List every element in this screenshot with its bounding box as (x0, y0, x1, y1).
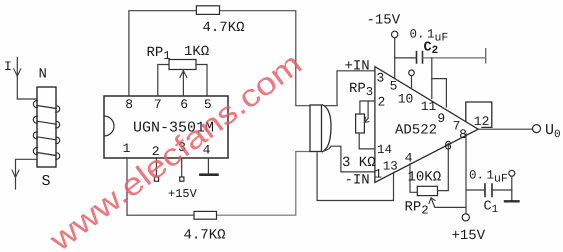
wire -15V node to C2 (395, 57, 416, 59)
svg-text:3: 3 (377, 71, 385, 86)
wire pin11 from C2 line (431, 58, 433, 99)
svg-text:0. 1uF: 0. 1uF (469, 169, 508, 186)
wire pin4 to RP2 (410, 164, 417, 193)
coil winding turn 2 (33, 116, 59, 128)
IC U1 UGN-3501M body (104, 96, 228, 158)
potentiometer RP3 body (356, 114, 365, 133)
svg-text:1: 1 (123, 141, 131, 156)
op-amp U2 AD522 triangle (375, 67, 478, 183)
resistor R1 4.7K top (196, 6, 219, 15)
coil winding turn 3 (33, 132, 59, 144)
bottom rail wire (127, 214, 194, 216)
RP1 wiper arrowhead (180, 71, 187, 78)
svg-text:14: 14 (377, 143, 392, 157)
wire coupler to +IN (325, 71, 375, 106)
ground bar C1 (505, 200, 519, 202)
svg-text:3 KΩ: 3 KΩ (342, 155, 376, 171)
svg-text:-15V: -15V (367, 13, 401, 29)
svg-text:RP2: RP2 (405, 200, 429, 218)
coil winding turn 1 (33, 101, 59, 113)
svg-text:13: 13 (383, 160, 398, 174)
wire +15V node to C1 (466, 189, 485, 191)
wire into coil (17, 98, 56, 100)
svg-text:11: 11 (421, 99, 437, 114)
pin3 wire (181, 158, 183, 177)
svg-text:9: 9 (437, 111, 445, 126)
svg-text:6: 6 (180, 97, 188, 112)
U1 notch (104, 116, 114, 136)
pin1 wire to bottom rail (126, 158, 128, 215)
svg-text:+15V: +15V (452, 228, 486, 244)
coil exit wire (16, 159, 37, 189)
current arrow down (16, 58, 18, 99)
svg-text:AD522: AD522 (395, 123, 437, 139)
cable coupler arc (323, 105, 332, 152)
svg-text:I: I (4, 59, 12, 74)
RP3 top lead to pin2 (360, 101, 375, 114)
RP1 right lead to pin5 (196, 65, 207, 97)
svg-text:10KΩ: 10KΩ (408, 170, 442, 186)
svg-text:www.elecfans.com: www.elecfans.com (42, 46, 308, 252)
wire -15V to pin5 (394, 38, 396, 79)
box pin12 (466, 102, 492, 127)
wire pin8 to +15V (465, 134, 467, 214)
wire terminal to ground (511, 176, 513, 201)
output wire (478, 128, 532, 130)
svg-text:+15V: +15V (168, 187, 198, 201)
svg-text:-IN: -IN (345, 173, 370, 189)
RP3 wiper arrowhead (364, 117, 369, 122)
resistor R2 4.7K bottom (194, 211, 217, 219)
wire coupler arc to pin1 (324, 146, 375, 172)
exit arrowhead (12, 170, 19, 178)
RP3 wiper loop (364, 101, 368, 122)
pin3 terminal square (180, 177, 184, 181)
wire C1 to ground (493, 189, 512, 191)
terminal +15V (462, 214, 469, 221)
svg-text:+IN: +IN (345, 59, 370, 75)
capacitor C2 (417, 52, 423, 64)
svg-text:5: 5 (390, 79, 398, 94)
svg-text:RP3: RP3 (349, 81, 373, 99)
capacitor C1 (485, 184, 492, 197)
wire C2 right (423, 57, 486, 59)
pin2 wire (155, 158, 157, 177)
potentiometer RP2 body (417, 186, 437, 195)
pin4 wire (207, 158, 209, 174)
RP1 wiper wire pin6 (182, 71, 184, 96)
wire pin10 (411, 76, 413, 89)
svg-text:8: 8 (125, 97, 133, 112)
svg-text:RP1: RP1 (147, 45, 171, 63)
terminal circle right (509, 170, 515, 176)
terminal U0 (533, 125, 541, 133)
RP3 bottom lead to pin14 (359, 133, 375, 149)
svg-text:4: 4 (405, 151, 413, 166)
terminal -15V (392, 31, 398, 37)
ground bar at pin4 (200, 173, 217, 176)
RP1 left lead to pin7 (158, 65, 169, 97)
wire coupler bottom to pin13 (317, 152, 393, 201)
cable coupler body (310, 105, 322, 152)
svg-text:S: S (42, 173, 51, 190)
svg-text:10: 10 (398, 92, 414, 107)
svg-text:U0: U0 (545, 122, 561, 141)
RP2 wiper arrowhead (429, 198, 435, 204)
coil winding turn 4 (33, 148, 59, 160)
terminal pin10 (409, 70, 415, 76)
top rail wire (129, 11, 196, 96)
jumper pin11 to pin9 (432, 79, 447, 107)
svg-text:4.7KΩ: 4.7KΩ (203, 20, 245, 36)
wire end tick (485, 49, 487, 63)
RP2 right lead to pin6 (438, 143, 449, 190)
svg-text:4.7KΩ: 4.7KΩ (184, 228, 226, 244)
RP2 wiper wire to +15V (431, 198, 466, 207)
svg-text:N: N (39, 67, 47, 83)
potentiometer RP1 (169, 60, 196, 70)
svg-text:1KΩ: 1KΩ (184, 44, 209, 60)
svg-text:C1: C1 (484, 200, 499, 217)
pin2 terminal square (154, 177, 158, 181)
coil core L1 (37, 87, 56, 167)
svg-text:7: 7 (154, 97, 162, 112)
svg-text:2: 2 (378, 95, 386, 110)
